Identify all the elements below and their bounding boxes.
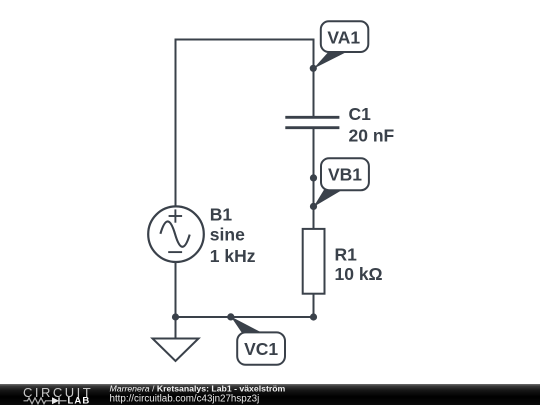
wire left vertical to source top — [175, 39, 177, 207]
label VA1 — [313, 21, 368, 69]
capacitor C1 — [285, 117, 339, 127]
svg-text:VB1: VB1 — [328, 165, 362, 185]
wire right down to capacitor — [313, 39, 315, 118]
svg-text:B1: B1 — [210, 204, 233, 224]
wire resistor bottom — [313, 294, 315, 318]
label VC1 — [231, 317, 285, 365]
wire top horizontal — [175, 39, 314, 41]
svg-text:http://circuitlab.com/c43jn27h: http://circuitlab.com/c43jn27hspz3j — [110, 394, 260, 405]
node dot ground junction — [172, 313, 179, 320]
node B dot upper (VB1) — [310, 174, 317, 181]
wire source bottom — [175, 262, 177, 317]
svg-text:R1: R1 — [335, 245, 358, 265]
wire capacitor to resistor — [313, 128, 315, 230]
label VB1 — [314, 158, 369, 207]
node A dot (VA1) — [310, 65, 317, 72]
CircuitLab logo diode — [52, 397, 59, 404]
node dot resistor bottom junction — [310, 313, 317, 320]
svg-text:LAB: LAB — [68, 396, 91, 405]
svg-text:1 kHz: 1 kHz — [210, 246, 256, 266]
wire bottom horizontal — [176, 316, 314, 318]
svg-text:10 kΩ: 10 kΩ — [335, 264, 383, 284]
svg-text:VA1: VA1 — [327, 27, 360, 47]
CircuitLab logo resistor zigzag — [24, 398, 53, 404]
footer bar — [0, 384, 540, 405]
node B dot lower (VB1 tail) — [310, 203, 317, 210]
svg-text:VC1: VC1 — [244, 339, 278, 359]
voltage source B1 — [148, 206, 204, 262]
svg-text:sine: sine — [210, 225, 245, 245]
resistor R1 — [303, 229, 325, 294]
ground — [153, 339, 199, 362]
wire ground stub — [175, 317, 177, 339]
svg-text:C1: C1 — [349, 104, 372, 124]
svg-text:20 nF: 20 nF — [349, 126, 395, 146]
node C dot (VC1) — [227, 313, 234, 320]
svg-text:Marrenera / Kretsanalys: Lab1: Marrenera / Kretsanalys: Lab1 - växelstr… — [110, 384, 286, 394]
